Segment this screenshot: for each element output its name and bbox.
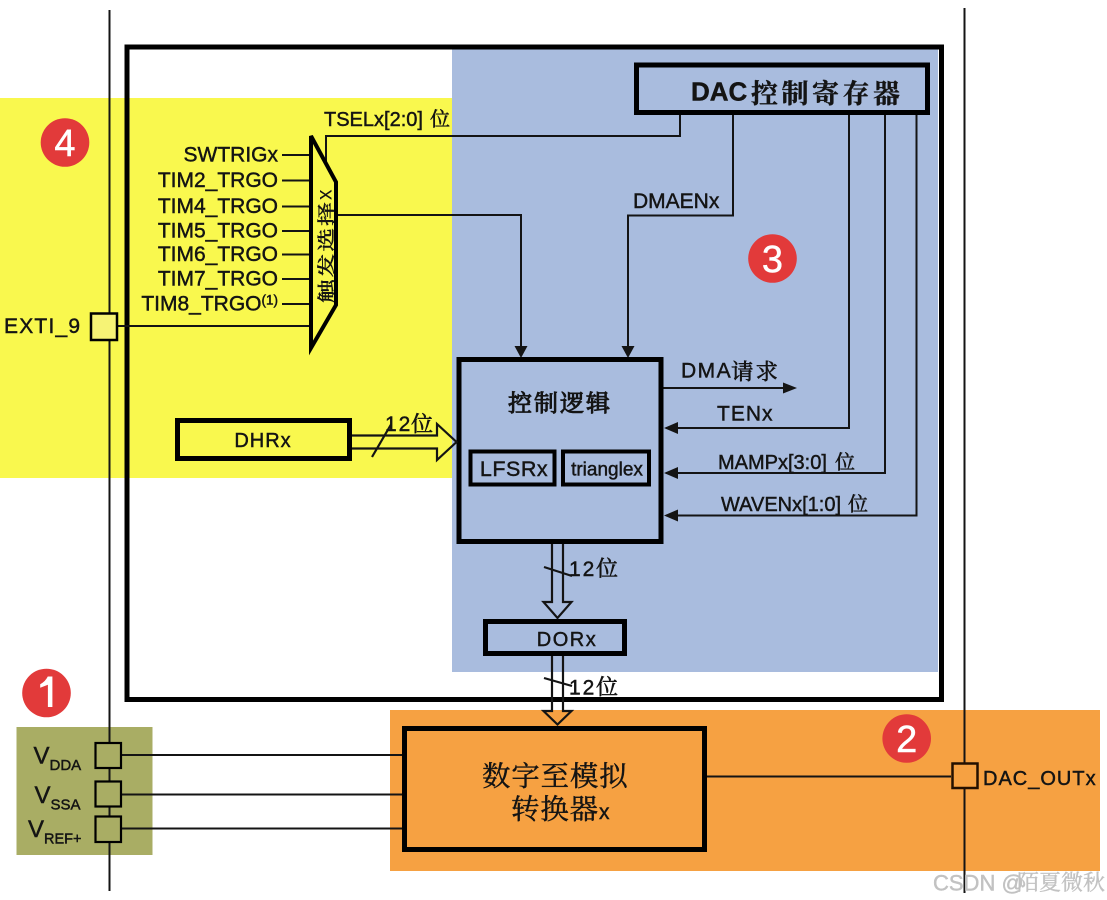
badge circle 2 <box>882 714 931 763</box>
DAC block outer border <box>127 47 942 700</box>
svg-text:TIM8_TRGO(1): TIM8_TRGO(1) <box>141 293 278 316</box>
pad VDDA <box>96 743 122 768</box>
arrowhead MAMPx <box>664 467 678 479</box>
wire VREF+ <box>122 828 402 830</box>
svg-text:CSDN @: CSDN @ <box>933 871 1024 896</box>
svg-text:12: 12 <box>385 413 412 436</box>
svg-text:2: 2 <box>896 719 917 761</box>
svg-text:DMA: DMA <box>681 360 732 383</box>
arrowhead DMAENx <box>622 346 635 358</box>
wire mux output to control logic <box>336 215 521 347</box>
svg-text:DORx: DORx <box>537 629 597 651</box>
bus slash DHRx arrow <box>372 425 391 458</box>
label control logic <box>509 391 610 413</box>
svg-text:12: 12 <box>569 558 596 581</box>
wire trigger input 6 <box>282 278 311 280</box>
pad EXTI_9 <box>91 314 117 341</box>
block LFSRx <box>471 452 555 485</box>
svg-text:TIM2_TRGO: TIM2_TRGO <box>158 169 278 192</box>
wire VSSA <box>122 794 402 796</box>
bus slash arrow to DORx <box>544 567 572 576</box>
bus arrow DORx to DAC (12-bit) <box>544 656 572 725</box>
arrowhead WAVENx <box>664 510 678 522</box>
label digital to analog converter line1 <box>483 762 627 788</box>
svg-text:DMAENx: DMAENx <box>633 190 720 213</box>
svg-text:TIM6_TRGO: TIM6_TRGO <box>158 243 278 266</box>
wire EXTI_9 to mux <box>115 325 311 327</box>
svg-text:TIM4_TRGO: TIM4_TRGO <box>158 195 278 218</box>
label converter line2 <box>512 795 597 821</box>
svg-text:DAC: DAC <box>691 77 748 107</box>
svg-text:WAVENx[1:0]: WAVENx[1:0] <box>721 494 841 516</box>
svg-text:4: 4 <box>54 123 75 165</box>
svg-text:12: 12 <box>569 677 596 700</box>
svg-text:TENx: TENx <box>717 403 774 426</box>
wire WAVENx[1:0] <box>666 115 917 516</box>
badge circle 3 <box>748 234 797 283</box>
wire TENx <box>666 115 849 428</box>
badge circle 4 <box>41 118 90 167</box>
wire VDDA <box>122 754 402 756</box>
pad VREF+ <box>96 817 122 843</box>
svg-text:x: x <box>599 801 610 824</box>
bus arrow control logic to DORx (12-bit) <box>544 544 572 618</box>
svg-text:trianglex: trianglex <box>571 460 643 481</box>
svg-text:MAMPx[3:0]: MAMPx[3:0] <box>718 452 827 474</box>
wire DAC output <box>707 776 951 778</box>
arrowhead mux output <box>515 346 528 358</box>
wire MAMPx[3:0] <box>666 115 885 473</box>
svg-text:EXTI_9: EXTI_9 <box>4 315 81 338</box>
svg-text:DAC_OUTx: DAC_OUTx <box>983 768 1097 790</box>
pad DAC_OUTx <box>953 764 978 789</box>
svg-text:TIM7_TRGO: TIM7_TRGO <box>158 268 278 291</box>
svg-text:LFSRx: LFSRx <box>480 457 548 481</box>
block DAC control register <box>637 65 928 113</box>
arrowhead TENx <box>664 422 678 434</box>
svg-text:SWTRIGx: SWTRIGx <box>184 144 279 167</box>
svg-text:DHRx: DHRx <box>234 430 291 452</box>
wire TSELx[2:0] <box>326 115 680 163</box>
bus line right (vertical) <box>964 8 966 893</box>
bus arrow DHRx to control logic (12-bit) <box>352 424 457 460</box>
bus line left (vertical) <box>109 10 111 891</box>
wire trigger input 1 <box>282 154 311 156</box>
svg-text:TIM5_TRGO: TIM5_TRGO <box>158 220 278 243</box>
wire DMAENx <box>628 115 733 347</box>
mux trigger selector trapezoid <box>311 136 336 348</box>
block trianglex <box>563 452 649 485</box>
wire DMA request <box>663 387 784 389</box>
wire trigger input 4 <box>282 230 311 232</box>
arrowhead DMA request <box>783 383 797 394</box>
wire trigger input 5 <box>282 254 311 256</box>
block DORx <box>486 622 625 654</box>
svg-text:3: 3 <box>762 239 783 281</box>
background orange region <box>390 710 1100 871</box>
svg-text:x: x <box>314 189 337 200</box>
block DHRx <box>178 421 350 459</box>
badge circle 1 <box>22 669 71 718</box>
block digital-to-analog converter <box>405 729 705 850</box>
wire trigger input 2 <box>282 180 311 182</box>
wire trigger input 3 <box>282 206 311 208</box>
block control logic <box>459 360 661 542</box>
background yellow region <box>0 98 452 478</box>
background olive region (analog supply) <box>17 727 153 855</box>
background blue region <box>452 47 938 672</box>
wire trigger input 7 <box>282 303 311 305</box>
label mux (trigger selector, rotated) <box>314 189 337 302</box>
svg-text:TSELx[2:0]: TSELx[2:0] <box>324 109 423 131</box>
bus slash arrow to DAC <box>544 678 572 686</box>
pad VSSA <box>96 782 122 807</box>
